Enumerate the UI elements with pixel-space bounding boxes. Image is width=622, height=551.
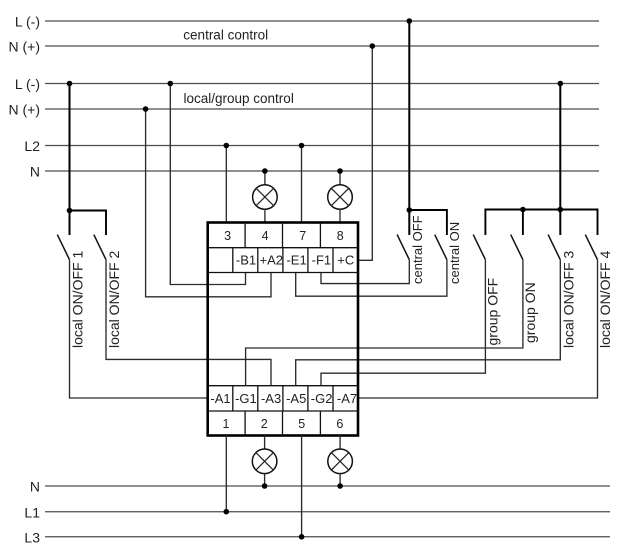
- svg-text:+A2: +A2: [260, 253, 284, 268]
- junction dot N(+) local at x=145.6: [143, 106, 149, 112]
- svg-text:L2: L2: [24, 138, 40, 154]
- svg-text:2: 2: [261, 417, 268, 431]
- svg-text:group ON: group ON: [522, 282, 538, 343]
- wire L(-) central control bus: [45, 20, 599, 22]
- blade local ON/OFF 3: [548, 235, 560, 260]
- wire feed from L(-) local to local switch pair bracket: [69, 84, 71, 236]
- junction dot bracket central pair: [407, 207, 413, 213]
- lamp X stroke 1: [331, 452, 349, 470]
- svg-text:central ON: central ON: [447, 222, 462, 284]
- svg-text:local ON/OFF 2: local ON/OFF 2: [106, 251, 122, 348]
- blade central ON: [435, 235, 447, 260]
- lamp symbol circle: [328, 449, 353, 474]
- lamp below terminal 6: [328, 436, 353, 489]
- switch local ON/OFF 1: [57, 235, 85, 348]
- lamp E1 above terminal 4: [253, 168, 278, 222]
- box row line below top labels: [208, 272, 358, 274]
- wire central ON to -E1: [296, 260, 447, 297]
- wire local ON/OFF 4 to -A7: [358, 260, 598, 398]
- switch central ON: [435, 222, 462, 284]
- svg-text:8: 8: [337, 229, 344, 243]
- junction dot L(-) central at x=409.3: [407, 18, 413, 24]
- junction dot bracket at local ON/OFF 3: [558, 207, 564, 213]
- lamp F1 above terminal 8: [328, 168, 353, 222]
- switch group OFF: [473, 235, 500, 346]
- junction dot N(+) central at x=372.3: [370, 43, 376, 49]
- junction dot N bottom at x=339.8: [337, 483, 343, 489]
- svg-text:-A7: -A7: [337, 391, 357, 406]
- wire N bus top: [45, 170, 599, 172]
- blade group ON: [511, 235, 523, 260]
- box row line below bottom labels: [208, 410, 358, 412]
- lamp X stroke 2: [256, 188, 274, 206]
- svg-text:-G1: -G1: [235, 391, 257, 406]
- svg-text:7: 7: [299, 229, 306, 243]
- lamp X stroke 2: [256, 452, 274, 470]
- wire terminal 5 to L3: [301, 436, 303, 537]
- top label cell dividers: [232, 248, 234, 273]
- wire terminal 6 to lamp: [339, 436, 341, 450]
- wire bracket of local switch pair: [70, 211, 107, 236]
- wire bracket of group/local switches: [485, 210, 597, 236]
- wire N to lamp F1: [339, 171, 341, 185]
- wire N(+) central control bus: [45, 45, 599, 47]
- wire N to lamp E1: [264, 171, 266, 185]
- switch local ON/OFF 2: [94, 235, 122, 348]
- wire lamp F1 to terminal 8: [339, 209, 341, 222]
- wire L1 bus: [45, 511, 610, 513]
- svg-text:-A5: -A5: [286, 391, 306, 406]
- wire central OFF to -F1: [321, 260, 409, 284]
- lamp symbol circle: [252, 449, 277, 474]
- svg-text:N (+): N (+): [9, 39, 41, 55]
- wire N(+) central to +C: [358, 46, 372, 260]
- svg-text:-G2: -G2: [311, 391, 333, 406]
- junction dot L2 at x=226.3: [224, 143, 230, 149]
- device box U1 outline: [208, 223, 358, 436]
- blade local ON/OFF 1: [57, 235, 69, 260]
- wire N bus bottom: [45, 485, 610, 487]
- wire L2 to terminal 3: [225, 146, 227, 223]
- wire local ON/OFF 1 to -A1: [70, 260, 208, 398]
- svg-text:6: 6: [336, 417, 343, 431]
- wire feed from L(-) local to group/local switch bracket: [559, 84, 561, 236]
- svg-text:central OFF: central OFF: [410, 215, 425, 284]
- lamp X stroke 1: [256, 452, 274, 470]
- svg-text:3: 3: [224, 229, 231, 243]
- wire L2 bus: [45, 145, 599, 147]
- svg-text:-F1: -F1: [312, 253, 332, 268]
- wire N(+) local to +A2: [146, 109, 271, 297]
- svg-text:+C: +C: [337, 253, 354, 268]
- blade group OFF: [473, 235, 485, 260]
- lamp symbol circle: [328, 185, 353, 210]
- svg-text:local ON/OFF 1: local ON/OFF 1: [69, 251, 85, 348]
- junction dot L(-) local at x=69.5: [67, 81, 73, 87]
- box row line above bottom labels: [208, 385, 358, 387]
- switch group ON: [511, 235, 538, 343]
- wire lamp to N bottom: [339, 474, 341, 486]
- wire L2 to terminal 7: [301, 146, 303, 223]
- wire local ON/OFF 3 to -A5: [296, 260, 561, 386]
- junction dot L(-) local at x=560.3: [558, 81, 564, 87]
- wire terminal 2 to lamp: [264, 436, 266, 450]
- svg-text:-A3: -A3: [261, 391, 281, 406]
- switch local ON/OFF 4: [585, 235, 613, 348]
- blade local ON/OFF 2: [94, 235, 106, 260]
- wire bracket stub group ON: [522, 210, 524, 236]
- svg-text:L (-): L (-): [15, 76, 40, 92]
- svg-text:group OFF: group OFF: [484, 278, 500, 346]
- svg-text:N: N: [30, 479, 40, 495]
- wire bracket of central switch pair: [409, 210, 447, 235]
- svg-text:local ON/OFF 4: local ON/OFF 4: [597, 251, 613, 348]
- wire terminal 1 to L1: [225, 436, 227, 512]
- svg-text:N: N: [30, 164, 40, 180]
- svg-text:central control: central control: [183, 28, 268, 43]
- junction dot L(-) local at x=170.3: [168, 81, 174, 87]
- lamp symbol circle: [253, 185, 278, 210]
- wire lamp to N bottom: [264, 474, 266, 486]
- box row line below top terminals: [208, 247, 358, 249]
- lamp below terminal 2: [252, 436, 277, 489]
- svg-text:-A1: -A1: [210, 391, 230, 406]
- junction dot L1 at x=226.3: [224, 509, 230, 515]
- bottom terminal cell dividers: [244, 411, 246, 436]
- wire feed from L(-) central to central switch pair bracket: [408, 21, 410, 235]
- svg-text:-B1: -B1: [236, 253, 256, 268]
- wire L(-) local to -B1: [170, 84, 245, 285]
- wire local ON/OFF 2 to -A3: [106, 260, 271, 386]
- junction dot L3 at x=301.6: [299, 534, 305, 540]
- wire L3 bus: [45, 536, 610, 538]
- svg-text:local ON/OFF 3: local ON/OFF 3: [561, 251, 577, 348]
- lamp X stroke 2: [331, 188, 349, 206]
- svg-text:L1: L1: [24, 504, 40, 520]
- lamp X stroke 2: [331, 452, 349, 470]
- svg-text:4: 4: [262, 229, 269, 243]
- svg-text:L3: L3: [24, 529, 40, 545]
- wire lamp E1 to terminal 4: [264, 209, 266, 222]
- switch local ON/OFF 3: [548, 235, 577, 348]
- junction dot N at x=339.7: [337, 168, 343, 174]
- svg-text:-E1: -E1: [286, 253, 306, 268]
- blade central OFF: [397, 235, 409, 260]
- bottom label cell dividers: [232, 386, 234, 411]
- switch central OFF: [397, 215, 425, 284]
- wire group ON to -G1: [246, 260, 523, 386]
- junction dot bracket local pair: [67, 208, 73, 214]
- junction dot N bottom at x=264.3: [262, 483, 268, 489]
- svg-text:5: 5: [298, 417, 305, 431]
- svg-text:local/group control: local/group control: [184, 91, 294, 106]
- svg-text:L (-): L (-): [15, 14, 40, 30]
- svg-text:N (+): N (+): [9, 102, 41, 118]
- junction dot bracket at group ON: [520, 207, 526, 213]
- top terminal cell dividers: [244, 223, 246, 248]
- lamp X stroke 1: [256, 188, 274, 206]
- junction dot N at x=264.6: [262, 168, 268, 174]
- lamp X stroke 1: [331, 188, 349, 206]
- svg-text:1: 1: [223, 417, 230, 431]
- wire L(-) local/group bus: [45, 83, 599, 85]
- blade local ON/OFF 4: [585, 235, 597, 260]
- junction dot L2 at x=301.5: [299, 143, 305, 149]
- wire group OFF to -G2: [321, 260, 485, 386]
- wire N(+) local/group bus: [45, 108, 599, 110]
